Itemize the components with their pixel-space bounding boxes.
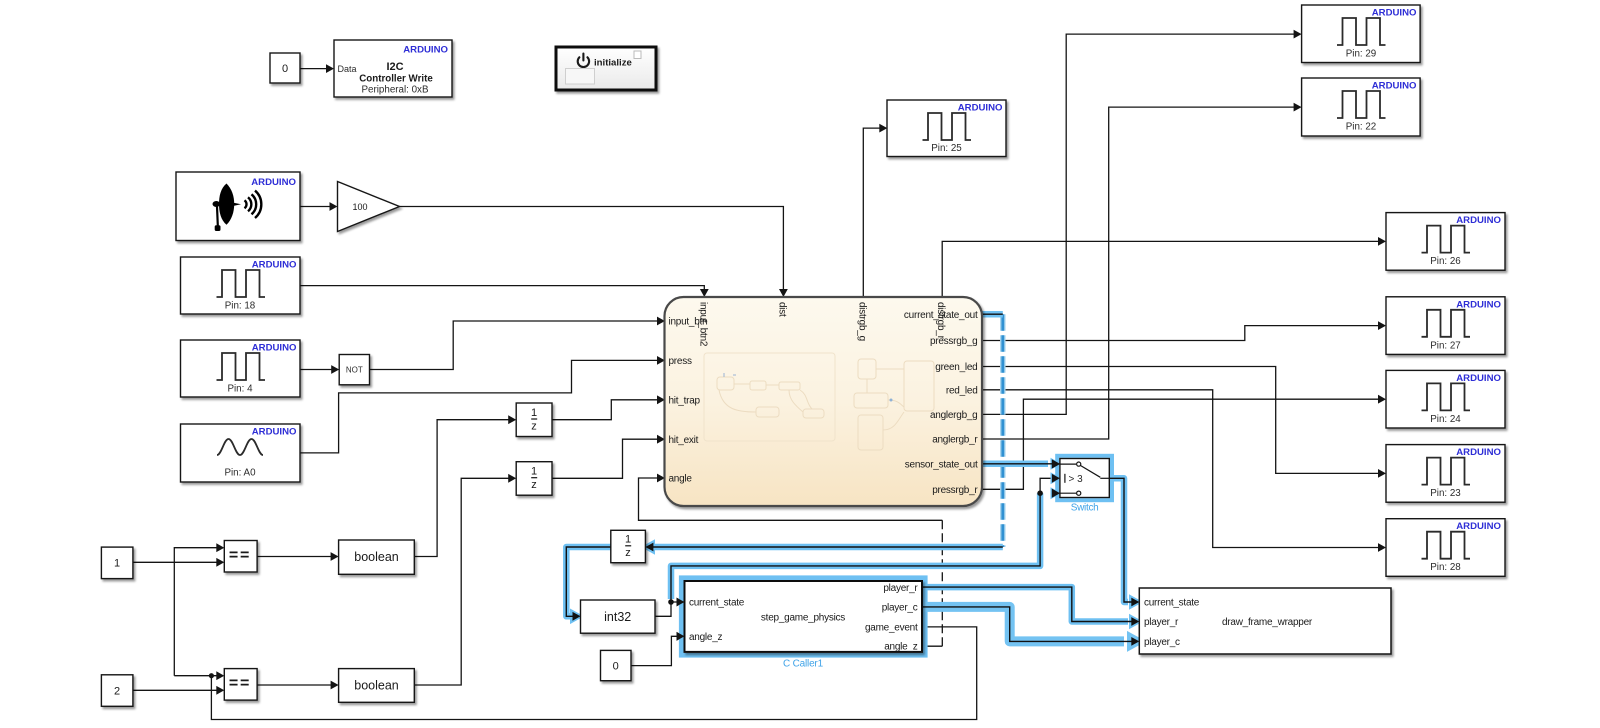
junction current_state branch	[668, 599, 674, 605]
boolean cast 1	[339, 540, 415, 574]
wire chart pressrgb_r to Pin24	[982, 395, 1386, 489]
svg-text:pressrgb_r: pressrgb_r	[932, 485, 978, 496]
arrow into C Caller current_state	[677, 598, 685, 607]
core player_r wire	[922, 587, 1132, 621]
svg-text:distrgb_r: distrgb_r	[935, 302, 946, 340]
svg-text:input_btn2: input_btn2	[697, 302, 708, 347]
svg-text:NOT: NOT	[346, 366, 363, 375]
wire const1 to equality1	[133, 558, 224, 567]
unit delay 1/z A	[516, 403, 552, 437]
unit delay 1/z C mirrored	[611, 530, 646, 562]
wire Pin4 to NOT	[300, 365, 339, 374]
svg-text:ARDUINO: ARDUINO	[1372, 81, 1417, 92]
svg-text:Pin: A0: Pin: A0	[224, 468, 256, 479]
wire const0b to C Caller angle_z input	[631, 632, 685, 666]
svg-text:C Caller1: C Caller1	[783, 659, 824, 670]
svg-text:player_c: player_c	[882, 603, 918, 614]
svg-text:Pin: 22: Pin: 22	[1346, 122, 1377, 133]
svg-text:Pin: 29: Pin: 29	[1346, 49, 1377, 60]
svg-text:100: 100	[352, 202, 367, 212]
Pin 26 digital output block	[1386, 213, 1505, 271]
svg-text:1: 1	[531, 407, 537, 419]
wire angle_z feedback horizontal and into chart angle	[639, 474, 943, 647]
equality operator 1	[224, 541, 257, 573]
wire chart anglergb_g to Pin29	[982, 30, 1302, 415]
arrow into switch in2	[1052, 474, 1060, 483]
svg-text:draw_frame_wrapper: draw_frame_wrapper	[1222, 617, 1313, 628]
svg-text:==: ==	[229, 547, 251, 564]
I2C Controller Write block	[334, 40, 452, 97]
Pin 29 digital output block	[1302, 5, 1421, 63]
wire unit delay B to chart hit_exit	[552, 435, 665, 478]
wire current_state_out dashed vertical	[1000, 314, 1006, 547]
svg-text:ARDUINO: ARDUINO	[252, 343, 297, 354]
svg-text:sensor_state_out: sensor_state_out	[905, 460, 978, 471]
wire PinA0 sine to chart press	[300, 356, 665, 453]
svg-text:ARDUINO: ARDUINO	[251, 177, 296, 188]
svg-text:Switch: Switch	[1071, 503, 1099, 514]
WIRES-LAYER	[133, 30, 1386, 720]
core loop horizontal to unit delay C	[653, 546, 1003, 548]
wire chart anglergb_r to Pin22	[982, 103, 1302, 439]
gain 100	[338, 182, 400, 232]
Pin 24 digital output block	[1386, 370, 1505, 428]
Pin 18 digital input block	[181, 257, 301, 314]
wire equality1 to boolean1	[257, 552, 339, 561]
ultrasonic sensor block	[176, 172, 300, 241]
core unit delay C to int32	[566, 547, 611, 616]
chart game_logic	[665, 297, 983, 506]
svg-text:z: z	[531, 420, 537, 432]
int32 cast	[581, 600, 656, 633]
constant 1	[101, 547, 132, 579]
svg-text:anglergb_r: anglergb_r	[932, 435, 978, 446]
halo current_state_out stub	[982, 311, 1003, 318]
svg-text:dist: dist	[776, 302, 787, 317]
svg-text:anglergb_g: anglergb_g	[930, 410, 978, 421]
wire chart distrgb_r to Pin26	[942, 237, 1386, 297]
svg-text:> 3: > 3	[1069, 474, 1084, 485]
svg-text:ARDUINO: ARDUINO	[958, 103, 1003, 114]
core player_c wire	[922, 607, 1132, 642]
wire chart red_led to Pin28	[982, 390, 1386, 552]
TOP-ARROWS-LAYER	[677, 460, 1060, 641]
wire Pin18 to chart top port input_btn2	[300, 286, 709, 297]
halo player_c wire	[922, 607, 1124, 642]
wire chart distrgb_g to Pin25	[863, 124, 887, 297]
svg-text:ARDUINO: ARDUINO	[252, 427, 297, 438]
core arrowheads	[573, 459, 1140, 645]
svg-text:0: 0	[613, 661, 619, 673]
svg-text:1: 1	[114, 558, 120, 570]
HIGHLIGHT-LAYER	[566, 314, 1146, 655]
halo player_r wire	[922, 587, 1128, 621]
wire boolean1 to unit delay A	[414, 415, 516, 556]
arrow into switch in3	[1052, 489, 1060, 498]
svg-text:angle_z: angle_z	[884, 642, 918, 653]
svg-text:ARDUINO: ARDUINO	[1456, 299, 1501, 310]
wire gain to chart top port dist	[400, 207, 788, 298]
svg-text:int32: int32	[604, 610, 631, 624]
Pin 25 digital output block	[887, 100, 1006, 157]
wire const2 to equality2	[133, 686, 224, 695]
core current_state_out stub	[982, 313, 1003, 315]
wire ultrasonic to gain	[300, 202, 338, 211]
svg-text:Pin: 27: Pin: 27	[1430, 340, 1461, 351]
Pin 22 digital output block	[1302, 78, 1421, 136]
svg-text:current_state: current_state	[689, 598, 745, 609]
arrow into switch in1	[1052, 460, 1060, 469]
svg-text:angle_z: angle_z	[689, 632, 723, 643]
wire NOT to chart input_btn	[370, 317, 666, 370]
svg-text:hit_exit: hit_exit	[669, 435, 699, 446]
svg-text:0: 0	[282, 63, 288, 75]
svg-text:player_r: player_r	[1144, 617, 1179, 628]
svg-text:boolean: boolean	[354, 678, 399, 692]
svg-text:boolean: boolean	[354, 550, 399, 564]
wire const0 to I2C Data	[300, 64, 334, 73]
svg-text:1: 1	[531, 466, 537, 478]
wire int32 to C Caller current_state input	[655, 598, 685, 617]
svg-text:==: ==	[229, 675, 251, 692]
core switch out wire	[1109, 478, 1132, 602]
svg-text:angle: angle	[669, 474, 693, 485]
chart port labels right	[904, 310, 978, 496]
svg-text:game_event: game_event	[865, 623, 918, 634]
svg-text:z: z	[625, 547, 631, 559]
svg-text:player_c: player_c	[1144, 637, 1180, 648]
svg-text:Controller Write: Controller Write	[359, 74, 433, 85]
svg-text:player_r: player_r	[883, 583, 918, 594]
arrow into C Caller angle_z	[677, 632, 685, 641]
svg-text:2: 2	[114, 685, 120, 697]
halo loop horizontal to unit delay C	[655, 544, 1003, 551]
svg-text:ARDUINO: ARDUINO	[403, 45, 448, 56]
svg-text:step_game_physics: step_game_physics	[761, 613, 845, 624]
svg-text:hit_trap: hit_trap	[669, 396, 701, 407]
C Caller U1 step_game_physics	[685, 581, 923, 653]
halo unit delay C to int32	[566, 547, 611, 616]
svg-text:Pin: 26: Pin: 26	[1430, 256, 1461, 267]
svg-text:z: z	[531, 479, 537, 491]
boolean cast 2	[339, 669, 415, 703]
halo arrowheads	[570, 458, 1143, 630]
svg-text:ARDUINO: ARDUINO	[1456, 447, 1501, 458]
svg-text:ARDUINO: ARDUINO	[252, 260, 297, 271]
wire game_event to equality comparisons	[174, 543, 976, 719]
NOT logical operator	[339, 355, 369, 385]
Switch label	[1071, 503, 1099, 514]
svg-text:ARDUINO: ARDUINO	[1456, 521, 1501, 532]
svg-text:ARDUINO: ARDUINO	[1456, 373, 1501, 384]
constant 2	[101, 675, 132, 707]
svg-text:ARDUINO: ARDUINO	[1372, 8, 1417, 19]
junction game_event branch	[209, 673, 214, 678]
svg-text:Pin: 4: Pin: 4	[227, 384, 253, 395]
halo player_c arrowhead	[1127, 631, 1146, 652]
svg-text:ARDUINO: ARDUINO	[1456, 215, 1501, 226]
wire boolean2 to unit delay B	[414, 474, 516, 685]
svg-text:I2C: I2C	[386, 61, 403, 73]
constant 0 for angle_z	[601, 650, 632, 680]
halo sensor_state_out wire	[982, 461, 1048, 468]
initialize subsystem	[556, 47, 656, 90]
equality operator 2	[224, 669, 257, 701]
draw_frame_wrapper block	[1139, 588, 1391, 654]
svg-text:red_led: red_led	[946, 386, 978, 397]
svg-text:press: press	[669, 356, 692, 367]
switch block	[1060, 459, 1109, 498]
halo C Caller block	[681, 578, 925, 656]
core sensor_state_out wire	[982, 463, 1053, 465]
chart port labels left	[669, 317, 708, 485]
svg-text:Peripheral: 0xB: Peripheral: 0xB	[362, 85, 429, 96]
wire chart pressrgb_g to Pin27	[982, 321, 1386, 340]
Pin 4 digital input block	[181, 340, 301, 397]
svg-text:Pin: 24: Pin: 24	[1430, 414, 1461, 425]
svg-text:Pin: 25: Pin: 25	[931, 143, 962, 154]
halo current_state branch to switch	[671, 493, 1040, 599]
wire switch control stub	[1040, 478, 1052, 493]
svg-text:Pin: 28: Pin: 28	[1430, 562, 1461, 573]
halo switch out to draw_frame	[1109, 478, 1128, 602]
Pin 28 digital output block	[1386, 519, 1505, 577]
Pin A0 analog input block	[181, 424, 301, 482]
wire unit delay A to chart hit_trap	[552, 395, 665, 419]
chart top rotated port labels	[697, 302, 946, 347]
halo switch block	[1057, 456, 1112, 500]
Pin 27 digital output block	[1386, 297, 1505, 355]
svg-text:Pin: 23: Pin: 23	[1430, 488, 1461, 499]
highlighted wire cores	[566, 314, 1132, 641]
core current_state branch to switch	[671, 493, 1040, 602]
wire chart green_led to Pin23	[982, 367, 1386, 478]
svg-text:Pin: 18: Pin: 18	[225, 301, 256, 312]
wire angle_z feedback dashed vertical	[941, 520, 943, 646]
svg-text:current_state: current_state	[1144, 598, 1200, 609]
svg-text:initialize: initialize	[594, 58, 632, 69]
svg-text:green_led: green_led	[935, 362, 977, 373]
unit delay 1/z B	[516, 462, 552, 496]
junction switch in3	[1037, 490, 1043, 496]
wire equality2 to boolean2	[257, 681, 339, 690]
svg-text:distrgb_g: distrgb_g	[856, 302, 867, 341]
svg-text:1: 1	[625, 534, 631, 546]
svg-text:Data: Data	[338, 64, 357, 74]
Pin 23 digital output block	[1386, 445, 1505, 503]
constant 0	[270, 53, 300, 83]
C Caller1 label	[783, 659, 824, 670]
